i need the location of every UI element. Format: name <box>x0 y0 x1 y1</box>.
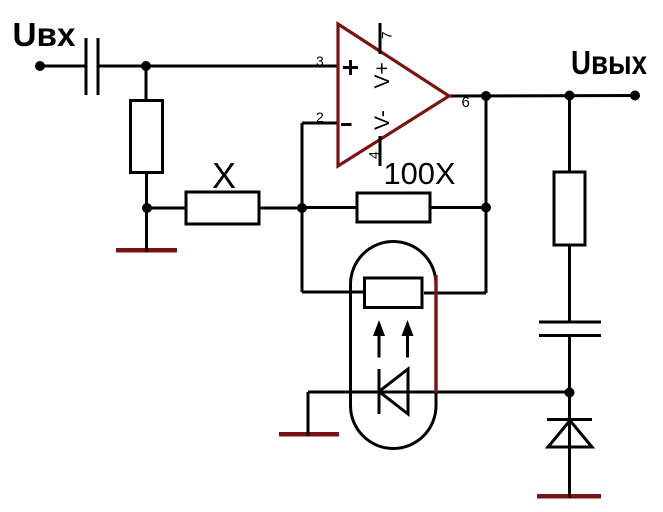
svg-text:2: 2 <box>316 109 324 125</box>
svg-text:Uвых: Uвых <box>571 44 648 81</box>
svg-text:V-: V- <box>371 110 394 130</box>
svg-text:Uвх: Uвх <box>13 16 77 53</box>
svg-text:4: 4 <box>366 151 382 159</box>
svg-text:X: X <box>212 155 236 196</box>
svg-text:V+: V+ <box>371 62 394 88</box>
svg-text:100X: 100X <box>384 156 456 191</box>
svg-text:3: 3 <box>316 53 324 69</box>
svg-text:6: 6 <box>462 94 470 111</box>
svg-text:7: 7 <box>379 31 395 39</box>
